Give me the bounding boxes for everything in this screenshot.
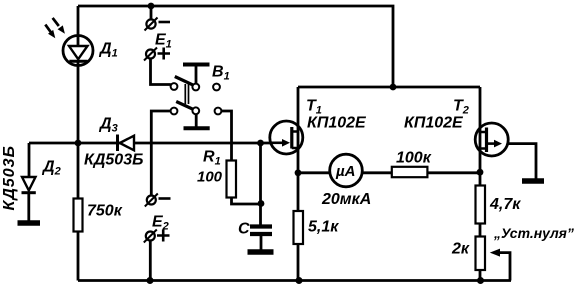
svg-text:КД503Б: КД503Б [1, 145, 18, 210]
svg-text:750к: 750к [87, 203, 123, 220]
svg-text:5,1к: 5,1к [308, 219, 339, 236]
svg-text:Д2: Д2 [41, 159, 61, 178]
svg-text:В1: В1 [212, 64, 230, 83]
svg-text:100к: 100к [396, 150, 432, 167]
svg-text:Д1: Д1 [98, 41, 118, 60]
svg-text:100: 100 [197, 169, 223, 186]
svg-text:КД503Б: КД503Б [84, 152, 143, 169]
svg-text:„Уст.нуля”: „Уст.нуля” [493, 225, 574, 241]
svg-text:КП102Е: КП102Е [404, 115, 464, 132]
svg-text:µА: µА [335, 163, 355, 180]
svg-text:R1: R1 [203, 149, 221, 168]
svg-text:Е1: Е1 [155, 32, 172, 51]
svg-text:20мкА: 20мкА [321, 191, 371, 208]
svg-text:С: С [238, 221, 250, 238]
svg-text:2к: 2к [451, 241, 470, 258]
svg-text:4,7к: 4,7к [489, 196, 521, 213]
svg-text:Е2: Е2 [152, 214, 169, 233]
svg-text:КП102Е: КП102Е [307, 115, 367, 132]
svg-text:Д3: Д3 [98, 116, 118, 135]
